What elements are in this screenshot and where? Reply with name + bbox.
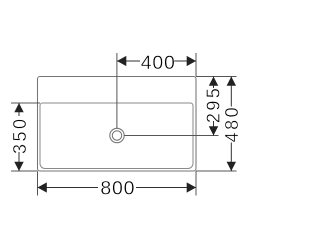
extension line bottom right (below rect for 800) xyxy=(195,171,197,196)
extension line left top (from bowl top edge) xyxy=(11,102,40,104)
dimension line 400 right segment xyxy=(174,60,196,62)
arrow down of 480 xyxy=(227,162,236,171)
arrow left of 800 xyxy=(38,182,47,192)
extension line right edge up to 400 dimension xyxy=(195,53,197,77)
dimension line 350 bottom segment xyxy=(18,152,20,171)
arrow down of 350 xyxy=(14,162,23,171)
drain outer circle xyxy=(110,128,124,142)
dimension line 295 bottom segment xyxy=(213,121,215,136)
arrow right of 800 xyxy=(187,182,196,192)
extension line bottom right (from rect bottom edge) xyxy=(196,170,237,172)
svg-text:295: 295 xyxy=(204,86,224,124)
arrow up of 295 xyxy=(209,77,218,86)
arrow up of 480 xyxy=(227,77,236,86)
svg-text:400: 400 xyxy=(141,52,176,74)
extension line left bottom (from rect bottom edge) xyxy=(11,170,38,172)
washbasin inner bowl outline xyxy=(40,103,193,169)
arrow left of 400 xyxy=(117,56,126,66)
dimension line 350 top segment xyxy=(18,103,20,116)
arrow up of 350 xyxy=(14,103,23,112)
svg-text:480: 480 xyxy=(222,105,242,143)
arrow down of 295 xyxy=(209,126,218,135)
extension line from drain center to right xyxy=(124,135,218,137)
dimension line 480 bottom segment xyxy=(230,143,232,172)
dimension line 800 left segment xyxy=(38,187,99,189)
washbasin outer outline xyxy=(38,77,197,172)
dimension line 400 left segment xyxy=(117,60,140,62)
extension line from drain center up to 400 dimension xyxy=(116,53,118,128)
dimension line 480 top segment xyxy=(230,77,232,107)
extension line bottom left (below rect for 800) xyxy=(37,172,39,196)
dimension line 800 right segment xyxy=(136,187,196,189)
svg-text:800: 800 xyxy=(100,178,135,200)
svg-text:350: 350 xyxy=(10,116,30,154)
extension line top right (from rect top edge) xyxy=(196,76,237,78)
drain inner circle xyxy=(112,131,121,140)
dimension line 295 top segment xyxy=(213,77,215,89)
arrow right of 400 xyxy=(187,56,196,66)
